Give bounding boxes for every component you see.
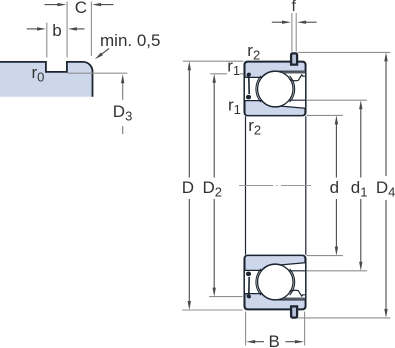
svg-text:r2: r2	[247, 41, 260, 63]
svg-text:d1: d1	[351, 178, 368, 200]
svg-text:D3: D3	[113, 102, 133, 124]
svg-text:B: B	[269, 332, 280, 348]
svg-text:min. 0,5: min. 0,5	[100, 31, 160, 50]
svg-text:r2: r2	[248, 116, 261, 138]
svg-text:C: C	[75, 0, 87, 17]
svg-text:d: d	[330, 178, 339, 197]
svg-text:r1: r1	[228, 96, 241, 118]
svg-text:f: f	[292, 0, 297, 15]
svg-text:D: D	[182, 178, 194, 197]
svg-text:b: b	[52, 21, 61, 40]
svg-text:D4: D4	[376, 178, 395, 200]
svg-text:r1: r1	[227, 57, 240, 79]
svg-text:D2: D2	[203, 178, 223, 200]
